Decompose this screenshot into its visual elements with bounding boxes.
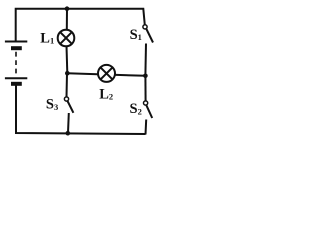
svg-text:L1: L1 xyxy=(40,30,54,46)
svg-text:S3: S3 xyxy=(46,97,58,113)
svg-text:L2: L2 xyxy=(99,87,113,103)
svg-text:S2: S2 xyxy=(130,101,142,117)
svg-text:S1: S1 xyxy=(130,27,142,43)
